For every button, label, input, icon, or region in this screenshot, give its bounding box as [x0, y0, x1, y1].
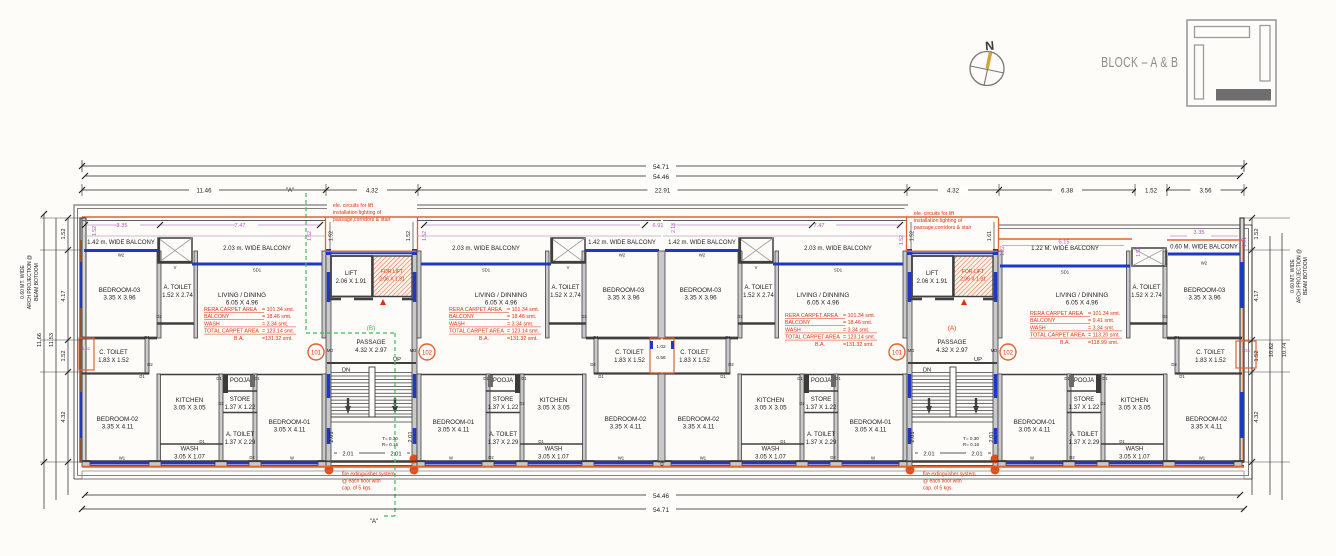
- svg-text:fire extinguisher system: fire extinguisher system: [342, 472, 395, 478]
- svg-text:WASH: WASH: [449, 321, 465, 327]
- svg-text:KITCHEN: KITCHEN: [1121, 397, 1149, 404]
- lift shaft hatch 2: [954, 256, 993, 297]
- dimension line 54.71 top: [82, 165, 1244, 167]
- svg-text:PASSAGE: PASSAGE: [937, 339, 966, 346]
- svg-text:D2: D2: [488, 455, 494, 460]
- dimension line 54.46 bottom: [85, 494, 1240, 496]
- svg-text:4.32 X 2.97: 4.32 X 2.97: [936, 347, 968, 354]
- svg-text:2.01: 2.01: [342, 452, 353, 458]
- svg-text:BALCONY: BALCONY: [204, 314, 230, 320]
- right dimension segments: [1251, 218, 1253, 495]
- svg-text:D2: D2: [1162, 314, 1168, 319]
- svg-text:RERA CARPET AREA: RERA CARPET AREA: [449, 307, 502, 313]
- svg-text:1.37 X 1.22: 1.37 X 1.22: [225, 405, 256, 411]
- svg-text:BALCONY: BALCONY: [785, 320, 811, 326]
- right end duct: [1236, 341, 1256, 368]
- svg-text:D2: D2: [728, 362, 734, 367]
- svg-text:D1: D1: [1102, 376, 1108, 381]
- core top orange verticals 1: [325, 218, 327, 252]
- svg-text:= 101.34 smt.: = 101.34 smt.: [507, 307, 539, 313]
- svg-text:1.52 X 2.74: 1.52 X 2.74: [550, 293, 581, 299]
- svg-text:4.17: 4.17: [1254, 290, 1260, 301]
- svg-text:1.61: 1.61: [1242, 237, 1248, 247]
- svg-text:2.03 m. WIDE BALCONY: 2.03 m. WIDE BALCONY: [452, 246, 520, 252]
- svg-text:TOTAL CARPET AREA: TOTAL CARPET AREA: [449, 329, 504, 335]
- core top inner dims 2: [910, 222, 912, 250]
- svg-text:3.05 X 4.11: 3.05 X 4.11: [438, 427, 470, 434]
- svg-text:4.32: 4.32: [947, 188, 960, 195]
- svg-text:T= 0.30: T= 0.30: [963, 436, 979, 441]
- balcony lines unit 1: [82, 220, 326, 222]
- svg-text:(A): (A): [948, 325, 957, 332]
- svg-text:4.32: 4.32: [1254, 411, 1260, 422]
- svg-text:=131.32 smt.: =131.32 smt.: [507, 336, 538, 342]
- svg-text:LIVING / DINNING: LIVING / DINNING: [475, 292, 528, 299]
- svg-text:101: 101: [311, 351, 322, 357]
- svg-text:2.06 X 1.91: 2.06 X 1.91: [960, 277, 986, 283]
- stair dims 2.01 2: [915, 452, 991, 454]
- stair arrows 1: [347, 398, 349, 408]
- dimension line segments top: [82, 189, 1244, 191]
- svg-text:= 101.34 smt.: = 101.34 smt.: [1088, 311, 1120, 317]
- svg-text:= 101.34 smt.: = 101.34 smt.: [262, 307, 294, 313]
- svg-text:2.01: 2.01: [910, 431, 916, 442]
- svg-text:10.62: 10.62: [1269, 343, 1275, 358]
- svg-text:SD1: SD1: [482, 268, 491, 273]
- svg-text:KITCHEN: KITCHEN: [176, 397, 204, 404]
- svg-text:= 101.34 smt.: = 101.34 smt.: [843, 313, 875, 319]
- svg-text:WASH: WASH: [785, 327, 801, 333]
- svg-text:RERA CARPET AREA: RERA CARPET AREA: [1030, 311, 1083, 317]
- svg-text:6.05 X 4.96: 6.05 X 4.96: [807, 300, 840, 307]
- svg-text:D1: D1: [216, 376, 222, 381]
- svg-text:BEDROOM-01: BEDROOM-01: [1014, 419, 1056, 426]
- walls unit 1 row1: [82, 218, 86, 462]
- svg-text:FOR LIFT: FOR LIFT: [962, 269, 984, 275]
- svg-text:D1: D1: [593, 335, 599, 340]
- right dimension line 10.62: [1269, 236, 1271, 495]
- passage 2: [910, 298, 922, 301]
- left dimension line 11.53: [55, 218, 57, 500]
- svg-text:D1: D1: [1174, 335, 1180, 340]
- svg-text:= 3.34 smt.: = 3.34 smt.: [843, 327, 869, 333]
- building bottom orange line: [82, 466, 1244, 468]
- svg-text:3.05 X 1.07: 3.05 X 1.07: [755, 455, 786, 461]
- svg-text:0.60 MT. WIDE: 0.60 MT. WIDE: [1290, 259, 1296, 293]
- svg-text:4.32: 4.32: [366, 188, 379, 195]
- svg-text:3.35: 3.35: [117, 223, 128, 229]
- svg-text:C. TOILET: C. TOILET: [615, 350, 644, 356]
- walls unit 4 row1: [1163, 251, 1167, 338]
- lift shaft hatch 1: [373, 256, 412, 297]
- svg-text:D2: D2: [218, 401, 224, 406]
- svg-text:= 18.46 smt.: = 18.46 smt.: [843, 320, 872, 326]
- svg-text:D1: D1: [720, 374, 726, 379]
- svg-text:LIVING / DINNING: LIVING / DINNING: [797, 292, 850, 299]
- svg-text:2.06 X 1.91: 2.06 X 1.91: [379, 277, 405, 283]
- svg-text:D2: D2: [1100, 401, 1106, 406]
- svg-text:SD1: SD1: [834, 268, 843, 273]
- svg-text:3.56: 3.56: [1199, 188, 1212, 195]
- walls unit 3 row1: [738, 251, 742, 338]
- svg-text:BEAM BOTOOM: BEAM BOTOOM: [34, 263, 40, 301]
- svg-text:LIVING / DINNING: LIVING / DINNING: [1056, 292, 1109, 299]
- svg-text:V: V: [174, 265, 177, 270]
- svg-text:1.37 X 2.29: 1.37 X 2.29: [1069, 440, 1100, 446]
- svg-text:3.05 X 3.05: 3.05 X 3.05: [754, 405, 787, 412]
- svg-text:D2: D2: [737, 314, 743, 319]
- svg-text:2.03 m. WIDE BALCONY: 2.03 m. WIDE BALCONY: [804, 246, 872, 252]
- svg-text:BEDROOM-03: BEDROOM-03: [603, 287, 645, 294]
- svg-text:1.51: 1.51: [82, 346, 91, 351]
- svg-text:7.47: 7.47: [235, 223, 246, 229]
- svg-text:W: W: [290, 456, 294, 461]
- svg-text:STORE: STORE: [1074, 397, 1095, 403]
- balcony lines unit 4: [998, 238, 1132, 240]
- svg-text:A. TOILET: A. TOILET: [163, 285, 191, 291]
- svg-text:C. TOILET: C. TOILET: [99, 350, 128, 356]
- svg-text:cap. of 5 kgs.: cap. of 5 kgs.: [923, 486, 953, 492]
- svg-text:ARCH PROJECTION @: ARCH PROJECTION @: [27, 255, 33, 309]
- svg-text:B.A.: B.A.: [479, 336, 489, 342]
- svg-text:W2: W2: [1201, 261, 1208, 266]
- svg-text:W1: W1: [119, 456, 126, 461]
- svg-text:UP: UP: [393, 357, 401, 363]
- svg-text:POOJA: POOJA: [1074, 378, 1094, 384]
- svg-text:1.37 X 2.29: 1.37 X 2.29: [488, 440, 519, 446]
- svg-text:2.03 m. WIDE BALCONY: 2.03 m. WIDE BALCONY: [223, 246, 291, 252]
- svg-text:"A": "A": [370, 518, 379, 525]
- core top wall 2: [907, 250, 998, 252]
- svg-text:1.42 m. WIDE BALCONY: 1.42 m. WIDE BALCONY: [87, 240, 155, 246]
- middle shaft between units 2-3: [650, 338, 674, 373]
- svg-text:W1: W1: [1199, 456, 1206, 461]
- right exterior wall: [1240, 218, 1244, 462]
- svg-text:1.52: 1.52: [406, 231, 412, 241]
- bottom windows unit 4: [1004, 462, 1236, 465]
- svg-text:1.52 X 2.74: 1.52 X 2.74: [743, 293, 774, 299]
- bottom windows unit 3: [669, 462, 901, 465]
- svg-text:1.52: 1.52: [899, 235, 905, 245]
- svg-text:1.22 M. WIDE BALCONY: 1.22 M. WIDE BALCONY: [1031, 246, 1099, 252]
- svg-text:KITCHEN: KITCHEN: [757, 397, 785, 404]
- svg-text:installation lighting of: installation lighting of: [333, 210, 382, 216]
- flat number circles 2: [889, 344, 905, 360]
- svg-text:BEDROOM-03: BEDROOM-03: [1184, 287, 1226, 294]
- svg-text:LIFT: LIFT: [345, 271, 358, 277]
- svg-text:D1: D1: [725, 335, 731, 340]
- svg-text:102: 102: [1003, 351, 1014, 357]
- balcony lines unit 2: [417, 220, 661, 222]
- svg-text:WASH: WASH: [1030, 325, 1046, 331]
- svg-text:BEDROOM-02: BEDROOM-02: [678, 416, 720, 423]
- svg-text:W: W: [1030, 456, 1034, 461]
- svg-text:V: V: [755, 265, 758, 270]
- svg-text:2.06 X 1.91: 2.06 X 1.91: [336, 279, 367, 285]
- svg-text:4.17: 4.17: [61, 290, 67, 301]
- svg-text:= 123.14 smt.: = 123.14 smt.: [843, 335, 875, 341]
- svg-text:= 123.14 smt.: = 123.14 smt.: [262, 329, 294, 335]
- svg-text:3.05 X 4.11: 3.05 X 4.11: [1019, 427, 1051, 434]
- duct shaft V unit 4: [1132, 248, 1166, 266]
- building top orange projection line: [82, 216, 998, 218]
- svg-text:BEDROOM-03: BEDROOM-03: [99, 287, 141, 294]
- left dimension segments: [67, 218, 69, 495]
- core 1 side walls: [326, 251, 331, 470]
- svg-text:R= 0.16: R= 0.16: [382, 442, 399, 447]
- stair arrows 2: [928, 398, 930, 408]
- outer arch projection boundary: [74, 205, 1252, 479]
- svg-text:D1: D1: [1119, 439, 1125, 444]
- svg-text:3.05 X 3.05: 3.05 X 3.05: [1118, 405, 1151, 412]
- svg-text:22.91: 22.91: [655, 188, 671, 195]
- svg-text:3.05 X 1.07: 3.05 X 1.07: [174, 455, 205, 461]
- svg-text:1.52: 1.52: [329, 231, 335, 241]
- stair dims 2.01 1: [334, 452, 410, 454]
- svg-text:6.15: 6.15: [1059, 240, 1070, 246]
- logo outer square: [1187, 20, 1276, 106]
- svg-text:SD1: SD1: [253, 268, 262, 273]
- svg-text:0.60 MT. WIDE: 0.60 MT. WIDE: [20, 265, 26, 299]
- svg-text:2.13: 2.13: [671, 223, 677, 233]
- svg-text:MD: MD: [410, 348, 417, 353]
- bottom exterior wall: [82, 460, 1244, 463]
- svg-text:6.05 X 4.96: 6.05 X 4.96: [226, 300, 259, 307]
- svg-text:3.05 X 4.11: 3.05 X 4.11: [274, 427, 306, 434]
- core top wall 1: [326, 250, 417, 252]
- bottom windows unit 1: [88, 462, 320, 465]
- logo left bar: [1195, 45, 1204, 99]
- svg-text:WASH: WASH: [545, 447, 563, 453]
- svg-text:D2: D2: [519, 401, 525, 406]
- svg-text:UP: UP: [974, 357, 982, 363]
- bottom projection lines: [82, 470, 1244, 472]
- svg-text:BALCONY: BALCONY: [1030, 318, 1056, 324]
- svg-text:1.52: 1.52: [1254, 228, 1260, 239]
- svg-text:D1: D1: [538, 439, 544, 444]
- svg-text:1.37 X 1.22: 1.37 X 1.22: [488, 405, 519, 411]
- svg-text:= 123.14 smt.: = 123.14 smt.: [507, 329, 539, 335]
- svg-text:3.35 X 4.11: 3.35 X 4.11: [102, 424, 134, 431]
- svg-text:1.42 m. WIDE BALCONY: 1.42 m. WIDE BALCONY: [668, 240, 736, 246]
- svg-text:D2: D2: [581, 314, 587, 319]
- svg-text:WASH: WASH: [181, 447, 199, 453]
- svg-text:D1: D1: [483, 376, 489, 381]
- logo right bar: [1260, 26, 1270, 82]
- svg-text:STORE: STORE: [230, 397, 251, 403]
- passage 1: [329, 298, 341, 301]
- svg-text:3.05 X 4.11: 3.05 X 4.11: [855, 427, 887, 434]
- duct shaft V unit 1: [158, 238, 192, 263]
- svg-text:3.35 X 3.96: 3.35 X 3.96: [684, 295, 717, 302]
- svg-text:6.91: 6.91: [653, 223, 664, 229]
- svg-text:BEAM BOTOOM: BEAM BOTOOM: [1303, 257, 1309, 295]
- svg-text:1.52: 1.52: [61, 350, 67, 361]
- svg-text:N: N: [985, 39, 995, 54]
- svg-text:0.60 M. WIDE BALCONY: 0.60 M. WIDE BALCONY: [1170, 245, 1238, 251]
- svg-text:1.83 X 1.52: 1.83 X 1.52: [679, 358, 710, 364]
- svg-text:D1: D1: [199, 439, 205, 444]
- svg-text:=131.32 smt.: =131.32 smt.: [262, 336, 293, 342]
- svg-text:C. TOILET: C. TOILET: [1196, 350, 1225, 356]
- svg-text:D1: D1: [144, 335, 150, 340]
- svg-text:A. TOILET: A. TOILET: [1132, 285, 1160, 291]
- svg-text:installation lighting of: installation lighting of: [914, 218, 963, 224]
- flat number circles 1: [308, 344, 324, 360]
- svg-text:=131.32 smt.: =131.32 smt.: [843, 342, 874, 348]
- svg-text:BALCONY: BALCONY: [449, 314, 475, 320]
- party wall between units 2-3 upper: [658, 251, 665, 338]
- svg-text:fire extinguisher system: fire extinguisher system: [923, 472, 976, 478]
- svg-text:passage,corridors & stair: passage,corridors & stair: [914, 225, 972, 231]
- core 2 side walls: [907, 251, 912, 470]
- svg-text:ele. circuits for lift: ele. circuits for lift: [333, 203, 374, 209]
- dimension line 54.46 top: [85, 175, 1240, 177]
- svg-text:1.37 X 1.22: 1.37 X 1.22: [806, 405, 837, 411]
- svg-text:D2: D2: [249, 455, 255, 460]
- svg-text:STORE: STORE: [493, 397, 514, 403]
- svg-text:2.01: 2.01: [390, 452, 401, 458]
- duct shaft V unit 3: [739, 238, 773, 263]
- svg-text:ARCH PROJECTION @: ARCH PROJECTION @: [1297, 249, 1303, 303]
- svg-text:FOR LIFT: FOR LIFT: [381, 269, 403, 275]
- svg-text:BEDROOM-01: BEDROOM-01: [269, 419, 311, 426]
- svg-text:2.06 X 1.91: 2.06 X 1.91: [917, 279, 948, 285]
- svg-text:B.A.: B.A.: [815, 342, 825, 348]
- walls unit 2 row1: [582, 251, 586, 338]
- svg-text:passage,corridors & stair: passage,corridors & stair: [333, 217, 391, 223]
- staircase 2: [908, 362, 997, 364]
- left dimension line 11.66: [43, 214, 45, 509]
- svg-text:W: W: [449, 456, 453, 461]
- svg-text:6.38: 6.38: [1061, 188, 1074, 195]
- svg-text:D1: D1: [598, 374, 604, 379]
- svg-text:1.52: 1.52: [1145, 188, 1158, 195]
- svg-text:W: W: [871, 456, 875, 461]
- svg-text:54.46: 54.46: [653, 174, 669, 181]
- svg-text:54.71: 54.71: [653, 164, 669, 171]
- svg-text:2.01: 2.01: [971, 452, 982, 458]
- svg-text:MD: MD: [991, 348, 998, 353]
- svg-text:4.32: 4.32: [61, 411, 67, 422]
- svg-text:D2: D2: [1171, 362, 1177, 367]
- svg-text:TOTAL CARPET AREA: TOTAL CARPET AREA: [785, 335, 840, 341]
- svg-text:SD1: SD1: [1061, 270, 1070, 275]
- svg-text:=118.99 smt.: =118.99 smt.: [1088, 340, 1118, 346]
- svg-text:BEDROOM-03: BEDROOM-03: [680, 287, 722, 294]
- svg-text:3.35 X 3.96: 3.35 X 3.96: [103, 295, 136, 302]
- svg-text:BEDROOM-01: BEDROOM-01: [850, 419, 892, 426]
- svg-text:1.83 X 1.52: 1.83 X 1.52: [1195, 358, 1226, 364]
- balcony lines unit 3: [663, 220, 907, 222]
- svg-text:= 9.41 smt.: = 9.41 smt.: [1088, 318, 1114, 324]
- svg-text:D2: D2: [830, 455, 836, 460]
- fire extinguisher dots 1: [325, 466, 334, 475]
- svg-text:1.83 X 1.52: 1.83 X 1.52: [98, 358, 129, 364]
- party wall between units 2-3 lower: [658, 374, 665, 462]
- svg-text:1.02: 1.02: [656, 344, 666, 350]
- svg-text:= 18.46 smt.: = 18.46 smt.: [262, 314, 291, 320]
- svg-text:D2: D2: [590, 362, 596, 367]
- svg-text:R= 0.16: R= 0.16: [963, 442, 980, 447]
- svg-text:RERA CARPET AREA: RERA CARPET AREA: [785, 313, 838, 319]
- svg-text:1.52: 1.52: [1136, 247, 1142, 257]
- svg-text:BEDROOM-01: BEDROOM-01: [433, 419, 475, 426]
- svg-text:= 113.20 smt.: = 113.20 smt.: [1088, 333, 1120, 339]
- svg-text:BEDROOM-02: BEDROOM-02: [97, 416, 139, 423]
- svg-text:(B): (B): [367, 325, 376, 332]
- svg-text:2.01: 2.01: [329, 431, 335, 442]
- svg-text:101: 101: [892, 351, 903, 357]
- svg-text:D2: D2: [156, 314, 162, 319]
- svg-text:A. TOILET: A. TOILET: [551, 285, 579, 291]
- bottom orange line overdraw: [82, 465, 1244, 467]
- svg-text:A. TOILET: A. TOILET: [489, 432, 517, 438]
- svg-text:T= 0.30: T= 0.30: [382, 436, 398, 441]
- svg-text:BEDROOM-02: BEDROOM-02: [605, 416, 647, 423]
- svg-text:W1: W1: [700, 456, 707, 461]
- section line A-A green dashed: [305, 193, 307, 333]
- svg-text:54.71: 54.71: [653, 507, 669, 514]
- svg-text:3.35 X 3.96: 3.35 X 3.96: [607, 295, 640, 302]
- svg-text:11.46: 11.46: [196, 188, 212, 195]
- svg-text:TOTAL CARPET AREA: TOTAL CARPET AREA: [204, 329, 259, 335]
- svg-text:LIFT: LIFT: [926, 271, 939, 277]
- svg-text:3.05 X 1.07: 3.05 X 1.07: [1119, 455, 1150, 461]
- svg-text:A. TOILET: A. TOILET: [807, 432, 835, 438]
- svg-text:PASSAGE: PASSAGE: [356, 339, 385, 346]
- dimension line 54.71 bottom: [82, 508, 1244, 510]
- right dimension line 10.74: [1281, 233, 1283, 500]
- staircase 1: [327, 362, 416, 364]
- svg-text:54.46: 54.46: [653, 493, 669, 500]
- svg-text:1.52 X 2.74: 1.52 X 2.74: [1131, 293, 1162, 299]
- svg-text:1.83 X 1.52: 1.83 X 1.52: [614, 358, 645, 364]
- svg-text:2.01: 2.01: [923, 452, 934, 458]
- svg-text:= 18.46 smt.: = 18.46 smt.: [507, 314, 536, 320]
- svg-text:D1: D1: [254, 376, 260, 381]
- svg-text:D2: D2: [1069, 455, 1075, 460]
- logo dark bar: [1216, 89, 1271, 101]
- svg-text:= 3.34 smt.: = 3.34 smt.: [1088, 325, 1114, 331]
- svg-text:B.A.: B.A.: [234, 336, 244, 342]
- lift 2: [912, 256, 953, 297]
- svg-text:BLOCK – A & B: BLOCK – A & B: [1101, 54, 1178, 70]
- svg-text:3.05 X 1.07: 3.05 X 1.07: [538, 455, 569, 461]
- svg-text:1.52: 1.52: [61, 228, 67, 239]
- svg-text:1.22: 1.22: [1000, 246, 1006, 256]
- svg-text:3.35 X 4.11: 3.35 X 4.11: [683, 424, 715, 431]
- svg-text:7.47: 7.47: [814, 223, 825, 229]
- svg-text:1.42 m. WIDE BALCONY: 1.42 m. WIDE BALCONY: [588, 240, 656, 246]
- svg-text:D1: D1: [1064, 376, 1070, 381]
- svg-text:POOJA: POOJA: [493, 378, 513, 384]
- svg-text:RERA CARPET AREA: RERA CARPET AREA: [204, 307, 257, 313]
- duct shaft V unit 2: [551, 238, 585, 263]
- logo top bar: [1195, 27, 1250, 38]
- svg-text:C. TOILET: C. TOILET: [680, 350, 709, 356]
- svg-text:6.05 X 4.96: 6.05 X 4.96: [485, 300, 518, 307]
- svg-text:1.37 X 1.22: 1.37 X 1.22: [1069, 405, 1100, 411]
- svg-text:102: 102: [422, 351, 433, 357]
- svg-text:1.52 X 2.74: 1.52 X 2.74: [162, 293, 193, 299]
- svg-text:0.56: 0.56: [656, 355, 666, 361]
- lift 1: [331, 256, 372, 297]
- svg-text:D1: D1: [835, 376, 841, 381]
- bottom wall line overdraw: [82, 460, 1244, 462]
- svg-text:D1: D1: [780, 439, 786, 444]
- svg-text:3.35: 3.35: [1194, 230, 1205, 236]
